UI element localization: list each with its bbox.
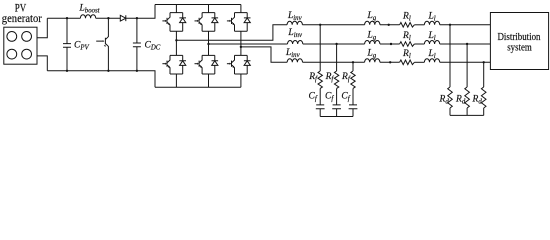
- wire leg1 verticals: [175, 5, 177, 88]
- wire Rd branch C bottom: [483, 108, 485, 115]
- distribution system box: [490, 13, 548, 70]
- wire Rf branch C vertical: [352, 62, 354, 71]
- transistor S4 bottom leg1: [162, 55, 186, 74]
- svg-text:Rf: Rf: [341, 72, 351, 83]
- wire PV top stub: [37, 18, 47, 38]
- node CPV top: [66, 17, 68, 19]
- node phase B leg tap: [207, 43, 209, 45]
- wire phase B to box: [440, 43, 491, 45]
- svg-text:Cf: Cf: [325, 92, 334, 103]
- svg-text:Linv: Linv: [287, 28, 303, 39]
- resistor Rl phase C: [400, 60, 415, 65]
- PV cell circle bottom-right: [22, 49, 32, 59]
- transistor S6 bottom leg3: [227, 55, 251, 74]
- svg-text:Rl: Rl: [402, 49, 411, 60]
- wire phase B: [209, 43, 288, 45]
- svg-text:Lg: Lg: [367, 11, 377, 22]
- svg-text:CDC: CDC: [145, 40, 161, 51]
- inductor Linv phase C: [287, 59, 302, 63]
- inductor Lg phase C: [365, 59, 380, 63]
- wire phase B to Ll: [414, 43, 424, 45]
- inductor Lg phase B: [365, 41, 380, 45]
- resistor Rd phase B: [465, 87, 470, 108]
- wire phase A to Ll: [414, 24, 424, 26]
- inductor Linv phase A: [287, 21, 302, 25]
- node phase B mid: [390, 43, 392, 45]
- wire leg3 verticals: [240, 5, 242, 88]
- svg-text:generator: generator: [2, 11, 42, 25]
- node Rd tap C: [483, 61, 485, 63]
- node Rf tap A: [319, 24, 321, 26]
- node phase A mid: [388, 24, 390, 26]
- wire leg2 verticals: [208, 5, 210, 88]
- wire Rd branch A vertical: [449, 25, 451, 87]
- resistor Rl phase B: [400, 42, 415, 47]
- resistor Rf phase C: [351, 71, 355, 88]
- wire phase A to box: [440, 24, 491, 26]
- wire phase C to Ll: [414, 61, 424, 63]
- node Rf tap C: [352, 61, 354, 63]
- svg-text:Rd: Rd: [472, 95, 483, 106]
- wire Rd branch A bottom: [449, 108, 451, 115]
- svg-text:Cf: Cf: [309, 92, 318, 103]
- inductor Lg phase A: [365, 21, 380, 25]
- wire Rf branch A vertical: [319, 25, 321, 71]
- svg-text:CPV: CPV: [74, 40, 89, 51]
- wire DC bottom rail: [47, 71, 155, 88]
- svg-text:Linv: Linv: [285, 48, 301, 59]
- resistor Rl phase A: [400, 23, 415, 28]
- wire phase B to Lg: [303, 43, 365, 45]
- wire phase C to Rl: [380, 61, 400, 63]
- node phase C leg tap: [240, 46, 242, 48]
- capacitor CDC: [133, 18, 141, 71]
- svg-text:Ll: Ll: [428, 12, 436, 23]
- capacitor Cf phase C: [349, 89, 358, 117]
- svg-text:Distribution: Distribution: [498, 32, 542, 43]
- wire Rd branch B vertical: [466, 44, 468, 87]
- svg-text:Lg: Lg: [367, 49, 377, 60]
- inductor Lboost: [80, 15, 95, 19]
- svg-text:Linv: Linv: [287, 11, 303, 22]
- capacitor CPV: [63, 18, 71, 71]
- capacitor Cf phase B: [332, 89, 341, 117]
- wire Cf common rail: [320, 116, 353, 118]
- PV generator box: [4, 27, 37, 64]
- wire phase C to box: [440, 61, 491, 63]
- svg-text:Lboost: Lboost: [79, 3, 101, 14]
- wire Rf branch B vertical: [336, 44, 338, 71]
- node CDC bottom: [136, 70, 138, 72]
- node Rd tap B: [466, 43, 468, 45]
- transistor S1 top leg1: [162, 13, 186, 32]
- capacitor Cf phase A: [316, 89, 325, 117]
- inductor Ll phase A: [424, 21, 439, 25]
- node phase A leg tap: [175, 39, 177, 41]
- resistor Rf phase A: [318, 71, 322, 88]
- transistor S2 top leg2: [195, 13, 219, 32]
- PV cell circle top-left: [7, 32, 17, 42]
- svg-text:Rf: Rf: [325, 72, 335, 83]
- wire Rd common rail: [450, 114, 484, 116]
- resistor Rf phase B: [334, 71, 338, 88]
- wire Rd branch B bottom: [466, 108, 468, 115]
- inductor Ll phase B: [424, 41, 439, 45]
- resistor Rd phase C: [481, 87, 486, 108]
- node phase C mid: [389, 61, 391, 63]
- resistor Rd phase A: [448, 87, 453, 108]
- wire phase A: [176, 25, 287, 41]
- wire phase C: [241, 47, 287, 62]
- node CPV bottom: [66, 70, 68, 72]
- transistor S3 top leg3: [227, 13, 251, 32]
- node Rf tap B: [335, 43, 337, 45]
- wire Rd branch C vertical: [483, 62, 485, 87]
- PV cell circle bottom-left: [7, 49, 17, 59]
- wire DC top rail left: [47, 17, 80, 19]
- svg-text:system: system: [507, 43, 532, 54]
- inductor Ll phase C: [424, 59, 439, 63]
- wire PV bottom stub: [37, 56, 47, 71]
- wire phase C to Lg: [303, 61, 365, 63]
- svg-text:Cf: Cf: [341, 92, 350, 103]
- svg-text:Lg: Lg: [367, 30, 377, 41]
- node Q boost top: [107, 17, 109, 19]
- svg-text:Rf: Rf: [308, 72, 318, 83]
- svg-text:Rd: Rd: [455, 95, 466, 106]
- wire inverter bottom rail: [155, 86, 241, 88]
- wire diode to inverter riser: [126, 5, 155, 19]
- diode D boost: [120, 15, 126, 21]
- svg-text:Ll: Ll: [428, 49, 436, 60]
- svg-text:Ll: Ll: [428, 31, 436, 42]
- wire Lboost to diode: [96, 17, 121, 19]
- PV cell circle top-right: [22, 32, 32, 42]
- wire phase A to Rl: [380, 24, 400, 26]
- node Rd tap A: [449, 24, 451, 26]
- wire inverter top rail: [155, 4, 241, 6]
- wire phase A to Lg: [302, 24, 364, 26]
- node CDC top: [136, 17, 138, 19]
- node Q boost bottom: [107, 70, 109, 72]
- inductor Linv phase B: [288, 41, 303, 45]
- transistor Q boost IGBT: [96, 18, 108, 71]
- transistor S5 bottom leg2: [195, 55, 219, 74]
- wire phase B to Rl: [380, 43, 400, 45]
- svg-text:Rl: Rl: [402, 12, 411, 23]
- svg-text:Rl: Rl: [402, 31, 411, 42]
